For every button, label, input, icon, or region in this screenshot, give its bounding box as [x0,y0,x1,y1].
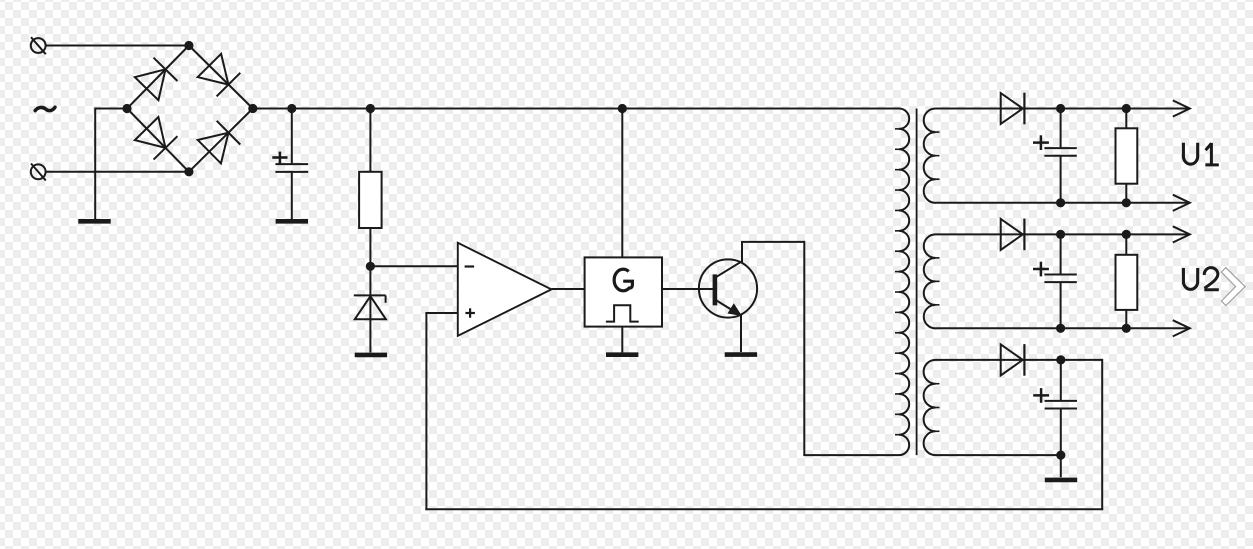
wire (R1 to node A) [369,228,371,266]
wire (bridge left node to ground stub) [95,108,127,110]
node (bridge right) [248,104,257,113]
wire (node A to op-amp inverting input) [370,265,457,267]
wire (rail to G block top) [621,109,623,258]
wire (down to primary return) [803,241,805,455]
resistor R2 (load 1) [1116,128,1138,183]
resistor R3 (load 2) [1116,255,1138,310]
node (feedback rectified) [1056,355,1065,364]
ground (zener) [355,353,387,358]
transformer T1 core [916,109,918,456]
diode D4 (bridge bottom-right) [198,121,241,164]
node (rail / C1) [287,104,296,113]
label U1 [1183,143,1218,165]
node (out2 R3 bottom) [1122,324,1131,333]
wire (D7 to feedback node) [1023,359,1102,361]
node (out2 C3 bottom) [1056,324,1065,333]
node (bridge top) [184,41,193,50]
node (out1 C2 bottom) [1056,198,1065,207]
transformer T1 secondary winding 3 [924,360,940,455]
wire (secondary 1 top to output) [936,108,1025,110]
transformer T1 primary winding [895,109,909,456]
wire (bridge edge left-top) [127,46,189,109]
terminal X1 (AC line, top) [31,37,46,54]
wire (node A through zener to ground) [369,266,371,352]
pulse generator G (PWM modulator) [585,257,662,326]
label ~ (AC source) [35,107,55,110]
diode D5 (output 1 rectifier) [1001,93,1025,125]
wire (R3 bottom) [1125,310,1127,328]
capacitor C3 (output 2 filter) [1033,262,1077,282]
diode D1 (bridge left-top) [135,58,178,101]
ground (G block) [606,352,638,357]
wire (C4 top) [1060,360,1062,401]
node (rail / G block) [618,104,627,113]
resistor R1 [359,172,382,228]
wire (feedback bottom horizontal) [425,508,1103,510]
node (out1 R2 bottom) [1122,198,1131,207]
wire (secondary 1 bottom / output 1 return) [936,202,1190,204]
zener diode ZD1 [354,295,386,319]
diode D3 (bridge left-bottom) [135,117,178,160]
wire (R2 bottom) [1125,184,1127,203]
wire (sec3 return to ground) [1060,455,1062,477]
ground (C1) [276,219,308,224]
wire (collector top horizontal) [741,241,804,243]
transformer T1 secondary winding 2 [924,234,940,328]
label U2 [1183,268,1218,290]
wire (DC+ rail) [253,108,899,110]
wire (C1 to ground) [291,172,293,219]
node (out2 R3 top) [1122,230,1131,239]
wire (bridge edge bottom-right) [189,109,253,172]
arrow (output 2 +) [1173,226,1190,242]
wire (C2 top) [1060,109,1062,149]
wire (feedback left vertical) [425,313,427,510]
wire (output 1 positive rail) [1023,108,1190,110]
node (rail / R1) [366,104,375,113]
node (out1 C2 top) [1056,104,1065,113]
wire (bridge edge top-right) [189,46,253,109]
wire (R3 top) [1125,234,1127,254]
arrow (output 1 -) [1173,195,1190,211]
wire (Q1 emitter to ground) [740,315,742,352]
wire (G block to Q1 base) [662,288,715,290]
node (out2 C3 top) [1056,230,1065,239]
wire (C4 bottom) [1060,408,1062,455]
transformer T1 secondary winding 1 [924,109,940,203]
wire (bridge edge left-bottom) [127,109,189,172]
wire (Q1 collector up) [741,242,743,262]
wire (secondary 2 top to output) [936,233,1025,235]
diode D7 (feedback rectifier) [1001,344,1025,376]
node A (reference node) [366,262,375,271]
capacitor C4 (feedback filter) [1033,388,1077,408]
wire (secondary 3 top to output) [936,359,1025,361]
wire (C3 top) [1060,234,1062,274]
wire (op-amp output to G block) [551,288,584,290]
op-amp U3 (error amplifier) [458,243,552,336]
ground (Q1 emitter) [725,352,757,357]
wire (secondary 3 bottom) [936,454,1061,456]
wire (ground stub vertical) [94,108,96,220]
wire (rail to R1) [369,109,371,172]
transistor Q1 (NPN switch) [699,259,757,317]
wire (feedback right vertical) [1101,359,1103,509]
wire (X1 to bridge top node) [46,45,189,47]
wire (feedback to op-amp non-inverting input) [425,312,457,314]
arrow (output 2 -) [1173,320,1190,336]
chevron (UI overlay, right edge) [1221,268,1245,306]
wire (G block to ground) [621,327,623,353]
terminal X2 (AC neutral, bottom) [31,164,46,181]
node (bridge bottom) [184,167,193,176]
wire (X2 to bridge bottom node) [46,171,189,173]
ground (bridge) [78,219,110,224]
wire (to transformer primary bottom) [803,454,899,456]
wire (rail to C1) [291,109,293,164]
capacitor C1 (electrolytic) [272,152,308,172]
arrow (output 1 +) [1173,100,1190,116]
wire (secondary 2 bottom / output 2 return) [936,327,1190,329]
diode D2 (bridge top-right) [198,54,241,97]
wire (C2 bottom) [1060,156,1062,203]
node (out1 R2 top) [1122,104,1131,113]
node (bridge left) [122,104,131,113]
capacitor C2 (output 1 filter) [1033,135,1077,155]
node (feedback return) [1056,451,1065,460]
diode D6 (output 2 rectifier) [1001,219,1025,251]
wire (output 2 positive rail) [1023,233,1190,235]
ground (feedback winding) [1045,478,1077,483]
wire (R2 top) [1125,109,1127,129]
wire (C3 bottom) [1060,282,1062,328]
